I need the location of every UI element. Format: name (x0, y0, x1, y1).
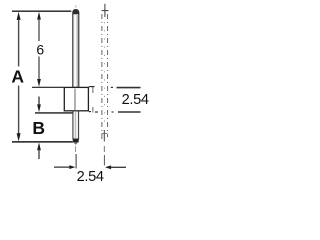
pin P1 inner shade line (76, 15, 78, 87)
phantom body bottom line (dashed, right) (89, 111, 141, 113)
dimension A line upper segment (18, 19, 20, 67)
pitch dim right arrowhead (105, 165, 111, 169)
pin P1 tail inner shade (74, 112, 76, 138)
bottom extension line (12, 141, 73, 143)
phantom pin P2 right edge dash-dot (107, 14, 109, 137)
phantom pin P2 center mark tick (102, 10, 109, 12)
phantom pin P2 centerline dash below tail (103, 146, 105, 152)
pitch dim right arrow shaft (111, 166, 127, 168)
dimension B upper arrow shaft (38, 97, 40, 106)
svg-text:2.54: 2.54 (122, 92, 149, 108)
pin silhouette line inside body (74, 89, 76, 110)
phantom body top line (dashed, right) (89, 87, 141, 88)
dimension 6 upper arrowhead (37, 12, 41, 20)
dimension B lower arrowhead (37, 143, 41, 151)
pitch dim left arrow shaft (54, 166, 71, 168)
phantom pin P2 left edge dash-dot (101, 14, 103, 139)
body-bottom extension line (35, 112, 73, 114)
pin P1 tail taper point (74, 142, 78, 145)
dimension 6 line upper segment (38, 19, 40, 41)
phantom pin P2 tail tip center stroke (103, 130, 105, 142)
dimension A line lower segment (18, 86, 20, 135)
dimension A lower arrowhead (17, 133, 21, 141)
svg-text:B: B (32, 118, 45, 138)
dimension 6 line lower segment (38, 57, 40, 81)
phantom pin P2 center mark vertical (104, 4, 106, 17)
phantom pin P2 tail tip tick (102, 133, 108, 135)
pitch dim left extension line (75, 154, 77, 168)
pin P1 body outline (73, 10, 79, 88)
dimension B lower arrow shaft (38, 150, 40, 160)
pin P1 tail (73, 111, 79, 139)
svg-text:A: A (11, 67, 24, 87)
pin P1 dark rounded top cap (73, 10, 79, 15)
svg-text:2.54: 2.54 (77, 169, 104, 185)
top extension line (12, 10, 71, 12)
phantom pin P2 centerline extension (103, 155, 105, 166)
pitch dim left arrowhead (69, 165, 75, 169)
phantom pin P2 centerline (104, 22, 106, 128)
pin P1 centerline tick above (75, 5, 76, 8)
dimension A upper arrowhead (17, 12, 21, 20)
dimension B upper arrowhead (37, 104, 41, 112)
svg-text:6: 6 (36, 41, 44, 57)
phantom body edge dash bottom (92, 107, 94, 113)
phantom body edge dash top (92, 86, 94, 93)
pin P1 centerline dash below tail (75, 146, 77, 152)
plastic body U1 (64, 87, 88, 110)
body-top extension line (32, 86, 65, 88)
dimension 6 lower arrowhead (37, 79, 41, 87)
pin P1 inner highlight line (74, 15, 76, 87)
pin P1 tail dark tip band (73, 139, 79, 143)
